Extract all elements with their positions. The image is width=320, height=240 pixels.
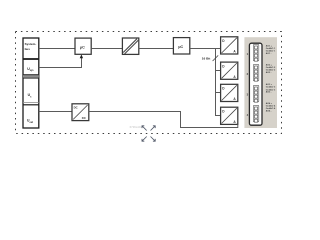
node U_s (segment supply) (28, 93, 32, 98)
node U_out (output supply) (27, 119, 33, 124)
pin labels channel 1 (266, 44, 276, 55)
svg-text:System-: System- (25, 42, 37, 46)
wire: branch to DAC2 (216, 70, 221, 72)
svg-text:AO2 -: AO2 - (266, 71, 272, 74)
svg-text:bus: bus (25, 47, 31, 51)
svg-text:AO2 +: AO2 + (266, 64, 273, 67)
DAC U3 (D/A converter channel 3) (221, 84, 238, 101)
svg-text:DC: DC (74, 105, 78, 109)
node U_sys (logic supply) (27, 67, 34, 72)
wire: branch to DAC4 (216, 115, 221, 117)
svg-text:µC: µC (178, 44, 183, 49)
svg-text:GndAO 3: GndAO 3 (266, 86, 276, 89)
cell separator below System bus (23, 58, 39, 60)
svg-text:AO1 +: AO1 + (266, 44, 273, 47)
DAC U4 (D/A converter channel 4) (221, 107, 238, 124)
svg-text:AO3 +: AO3 + (266, 83, 273, 86)
thin separator above bottom cell (23, 103, 39, 105)
wire: uC2 data bus to DAC column (190, 49, 221, 117)
output terminal connector frame (249, 43, 262, 125)
left bus connector column (23, 38, 39, 128)
pin labels channel 3 (266, 83, 276, 94)
svg-text:AO4 -: AO4 - (266, 109, 272, 112)
microcontroller uC2 (output side) (173, 38, 189, 54)
svg-text:µC: µC (80, 44, 85, 49)
svg-text:AO1 -: AO1 - (266, 52, 272, 55)
bus width marker 16 Bit (202, 55, 218, 61)
watermark number (130, 125, 143, 129)
wire: U_sys supply to uC1 (with up arrow) (39, 54, 83, 67)
supply separator band (gray) (23, 75, 39, 78)
wire: isolator to uC2 (139, 48, 174, 50)
svg-text:DC: DC (82, 116, 86, 120)
label: System bus (25, 42, 37, 51)
isolation area arrows marker (142, 126, 155, 141)
svg-text:6736xx01: 6736xx01 (130, 125, 143, 129)
op-amp / microcontroller uC1 (bus side) (75, 38, 91, 54)
svg-text:16 Bit: 16 Bit (202, 57, 210, 61)
wire: U_out to DC/DC converter (39, 111, 72, 113)
DAC U2 (D/A converter channel 2) (221, 62, 238, 79)
module boundary (dashed border) (16, 32, 282, 134)
svg-text:GndAO 2: GndAO 2 (266, 66, 276, 69)
wire: DC/DC output rail to DAC4 (89, 112, 238, 128)
DAC U1 (D/A converter channel 1) (221, 37, 238, 54)
wire: uC1 to isolator (91, 48, 122, 50)
terminal group 3 (channel 3 contacts) (253, 85, 258, 102)
galvanic isolation barrier (122, 38, 138, 54)
pin labels channel 2 (266, 64, 276, 75)
svg-text:GndAO 4: GndAO 4 (266, 104, 276, 107)
pin labels channel 4 (266, 102, 276, 113)
svg-text:out: out (30, 121, 34, 124)
wire: system bus to uC1 (39, 48, 75, 50)
terminal group 4 (channel 4 contacts) (253, 105, 258, 122)
svg-text:AO3 -: AO3 - (266, 91, 272, 94)
svg-text:AO4 +: AO4 + (266, 102, 273, 105)
DC/DC converter (72, 104, 89, 121)
terminal area background panel (244, 37, 277, 128)
svg-text:GndAO 1: GndAO 1 (266, 47, 276, 50)
terminal numbers 1-4 (247, 52, 249, 117)
terminal group 1 (channel 1 contacts) (253, 44, 258, 61)
wire: branch to DAC3 (216, 92, 221, 94)
terminal group 2 (channel 2 contacts) (253, 64, 258, 81)
